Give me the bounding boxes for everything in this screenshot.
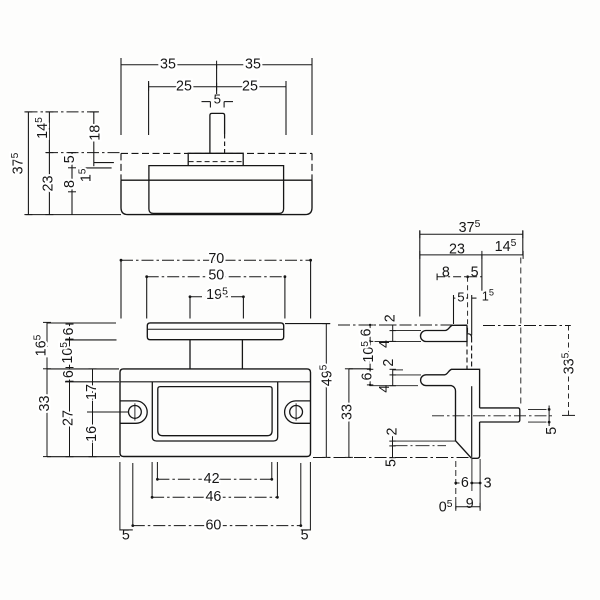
- ext lines to fingers: [393, 330, 421, 332]
- dim 33.5 right side: [568, 326, 570, 416]
- inner slot line of body: [471, 386, 473, 457]
- side view extension verticals (top): [419, 231, 421, 317]
- dim 35 extension lines: [120, 58, 122, 135]
- svg-text:5: 5: [544, 427, 560, 435]
- dim 5 pin diameter: [548, 406, 550, 427]
- side col 2/5 near foot: [392, 436, 394, 457]
- dim 25+25 line: [149, 86, 286, 88]
- upper finger (plate cross-section): [421, 325, 468, 341]
- svg-text:18: 18: [88, 125, 104, 141]
- svg-text:8: 8: [62, 180, 78, 188]
- svg-text:23: 23: [449, 242, 465, 258]
- svg-text:70: 70: [208, 251, 224, 267]
- baseline at body bottom: [26, 214, 122, 216]
- svg-text:5: 5: [457, 289, 464, 304]
- left screw hole: [129, 406, 142, 419]
- front body outline: [120, 369, 311, 457]
- dim 14.5 / 23 line: [48, 112, 50, 215]
- side col 2/4/2/4: [392, 325, 394, 341]
- dim 6 and 3 bottom: [456, 482, 480, 484]
- top view mid horizontal line: [121, 179, 312, 181]
- svg-text:6: 6: [61, 327, 77, 335]
- left dim block of top view: datum dash-dot at stem top: [26, 111, 102, 113]
- dim 23 / 14.5 line: [420, 254, 523, 256]
- svg-text:23: 23: [40, 176, 56, 192]
- top view inner pocket rect: [149, 166, 284, 214]
- svg-text:3: 3: [484, 476, 492, 492]
- svg-text:9: 9: [466, 496, 474, 512]
- dim 33 right of front view: [348, 369, 350, 458]
- dim 18 line: [93, 112, 95, 166]
- front left dims col1: 6 / 10.5 / 6 / 27: [69, 324, 71, 457]
- dim 50 line: [147, 276, 285, 278]
- dim 49.5 right of front view: [325, 324, 327, 458]
- svg-text:35: 35: [160, 56, 176, 72]
- svg-text:5: 5: [471, 265, 479, 281]
- dim 19.5 line: [190, 296, 243, 298]
- svg-text:6: 6: [359, 372, 375, 380]
- pin centerline: [432, 415, 554, 417]
- side view upper datum dash-dot: [338, 324, 453, 326]
- svg-text:2: 2: [383, 314, 399, 322]
- dim 5 (blade offset): [454, 297, 468, 299]
- dim 5 stem width: [202, 101, 211, 103]
- dim 5 left margin: [120, 529, 133, 531]
- dim 35+35 line: [121, 64, 312, 66]
- svg-text:25: 25: [176, 78, 192, 94]
- front left dim line 16.5 / 33: [46, 322, 48, 456]
- dim 37.5 overall height: [27, 112, 29, 215]
- dim 8 and 5 line: [436, 274, 438, 281]
- dim 70 line: [121, 259, 311, 261]
- side bottom ext verticals: [455, 461, 457, 509]
- dim 1.5 blade thickness: [472, 297, 477, 299]
- hidden extension of pin end: [520, 258, 522, 407]
- svg-text:35: 35: [245, 56, 261, 72]
- svg-text:16: 16: [84, 426, 100, 442]
- svg-text:6: 6: [461, 475, 469, 491]
- dim 9 and 0.5 bottom: [456, 506, 480, 508]
- svg-text:8: 8: [442, 265, 450, 281]
- blade behind upper finger: [467, 334, 472, 338]
- svg-text:25: 25: [242, 78, 258, 94]
- right datum dash-dot continuation: [483, 325, 571, 327]
- front left extension lines: [47, 322, 116, 324]
- dim 37.5 side view: [420, 233, 523, 235]
- front pocket outer: [152, 382, 277, 441]
- right screw boss: [285, 401, 311, 423]
- ext from corner down to blade: [467, 277, 469, 334]
- front left dims col2: 17 / 16: [92, 369, 94, 457]
- svg-text:17: 17: [84, 384, 100, 400]
- svg-text:33: 33: [37, 396, 53, 412]
- dim 5 / 8 line: [71, 153, 73, 215]
- datum dash-dot at body top: [46, 152, 120, 154]
- svg-text:5: 5: [383, 459, 399, 467]
- dim 5 right margin: [301, 529, 311, 531]
- svg-text:5: 5: [214, 92, 221, 107]
- svg-text:33: 33: [339, 404, 355, 420]
- svg-text:6: 6: [61, 370, 77, 378]
- bottom datum dash-dot between views: [313, 457, 470, 459]
- top view stem: [210, 113, 225, 153]
- left screw boss: [120, 401, 147, 423]
- svg-text:2: 2: [381, 359, 397, 367]
- svg-text:50: 50: [208, 268, 224, 284]
- top view plate: [188, 153, 243, 165]
- svg-text:46: 46: [205, 489, 221, 505]
- middle finger with body: [421, 369, 480, 458]
- dim 60: [133, 525, 301, 527]
- front bottom extension lines: [119, 462, 121, 531]
- svg-text:42: 42: [204, 471, 220, 487]
- front top plate (handle bar): [147, 323, 283, 340]
- svg-text:27: 27: [61, 410, 77, 426]
- dim 42: [157, 478, 271, 480]
- front stem: [189, 340, 191, 369]
- front body top band line: [120, 381, 311, 383]
- dim 46: [152, 496, 277, 498]
- svg-text:6: 6: [359, 328, 375, 336]
- svg-text:5: 5: [62, 155, 78, 163]
- front pocket inner: [158, 387, 272, 436]
- svg-text:2: 2: [385, 427, 401, 435]
- svg-text:5: 5: [301, 528, 309, 544]
- dim 1.5 plate thickness ext lines: [94, 162, 114, 164]
- side left col: 6 / 10.5 / 6: [369, 325, 371, 385]
- svg-text:60: 60: [205, 517, 221, 533]
- svg-text:5: 5: [122, 528, 130, 544]
- pin (stud): [480, 408, 520, 422]
- centerline to stem: [216, 65, 218, 94]
- top view body outline: [121, 152, 312, 154]
- right screw hole: [290, 406, 303, 419]
